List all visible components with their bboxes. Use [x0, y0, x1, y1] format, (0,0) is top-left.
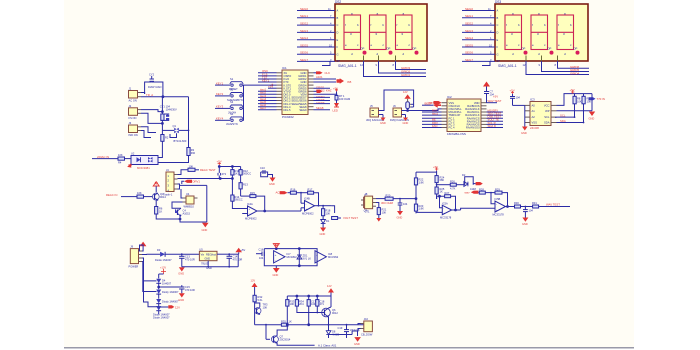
- svg-text:DS3: DS3: [495, 0, 501, 4]
- diode D1 (clamp): [321, 216, 330, 224]
- svg-text:SEG6: SEG6: [465, 51, 473, 55]
- IC1 left pin stubs: [277, 73, 283, 110]
- svg-text:SEG3: SEG3: [465, 29, 473, 33]
- svg-text:1.8K: 1.8K: [419, 181, 425, 185]
- svg-text:24C08: 24C08: [530, 126, 539, 130]
- digit 5 outline: [531, 15, 548, 50]
- IC3 pin names: [532, 103, 538, 124]
- resistor R10 REAC TEST: [188, 164, 216, 172]
- svg-text:R31: R31: [532, 201, 537, 205]
- WAV net arrow into IC2 pin1: [429, 101, 442, 105]
- decimal point DP4: [522, 47, 528, 55]
- svg-text:KEY1: KEY1: [262, 78, 270, 82]
- svg-text:WAV TEST: WAV TEST: [546, 203, 560, 207]
- svg-text:104: 104: [529, 209, 534, 213]
- svg-text:J1: J1: [129, 87, 132, 91]
- svg-text:1K: 1K: [440, 190, 443, 194]
- svg-text:R26: R26: [450, 179, 455, 183]
- svg-text:GRID1: GRID1: [401, 73, 411, 77]
- +5V at Q3: [153, 182, 159, 193]
- VCC arrow above IC2: [483, 82, 490, 92]
- snubber labels: [160, 104, 177, 111]
- svg-text:R4: R4: [118, 161, 122, 165]
- wire J4 pin1 to REAC TEST resistor: [178, 170, 189, 175]
- svg-text:S2: S2: [230, 88, 234, 92]
- pullup resistor R9: [582, 94, 591, 123]
- resistor R22 (1.8K top): [414, 178, 424, 185]
- svg-text:5.6L: 5.6L: [258, 298, 264, 302]
- svg-text:SDA R: SDA R: [488, 124, 496, 128]
- push button S4: [215, 112, 243, 126]
- resistor R19 out: [322, 205, 337, 220]
- svg-text:104: 104: [403, 202, 408, 206]
- resistor R32 (5.6K): [253, 295, 263, 308]
- svg-text:DP: DP: [387, 47, 391, 51]
- svg-text:A2: A2: [532, 115, 536, 119]
- snubber resistor R2: [161, 114, 169, 120]
- svg-text:R30: R30: [514, 201, 519, 205]
- sheet bottom border: [64, 347, 634, 349]
- svg-text:12: 12: [523, 63, 526, 67]
- svg-text:SEG3: SEG3: [300, 29, 308, 33]
- resistor R3 (vertical right): [187, 148, 196, 156]
- wire loop J5 to buzzer rail: [379, 90, 414, 111]
- LED D (red diode down): [333, 100, 340, 113]
- +5V rail top: [416, 165, 438, 176]
- svg-text:+5V: +5V: [241, 248, 246, 252]
- digit 1 outline: [344, 15, 361, 50]
- svg-text:DP: DP: [413, 47, 417, 51]
- opto output wires: [158, 147, 189, 163]
- DS3 spare pin stub: [482, 61, 490, 65]
- svg-text:IC4B: IC4B: [304, 197, 310, 201]
- svg-text:GND: GND: [521, 131, 527, 135]
- svg-text:D: D: [337, 31, 339, 35]
- svg-text:DP: DP: [548, 47, 552, 51]
- resistor R6 below Q3: [155, 200, 163, 217]
- ground (C11): [397, 211, 404, 220]
- grid net labels: [570, 65, 580, 76]
- svg-text:+: +: [275, 253, 277, 257]
- svg-text:10K: 10K: [137, 191, 142, 195]
- svg-text:SEG8: SEG8: [316, 106, 324, 110]
- push button S3: [215, 100, 243, 114]
- svg-text:D2: D2: [462, 173, 466, 177]
- snubber capacitor CY1: [166, 114, 169, 120]
- svg-text:SEG1: SEG1: [465, 14, 473, 18]
- svg-text:E: E: [497, 38, 499, 42]
- svg-text:12V: 12V: [327, 284, 332, 288]
- VCC rail right of IC3: [557, 94, 593, 106]
- svg-text:SEG5: SEG5: [300, 43, 308, 47]
- svg-text:IN5: IN5: [347, 80, 352, 84]
- svg-text:12: 12: [360, 63, 363, 67]
- digit2 segment letters: [371, 11, 385, 56]
- svg-text:CY2: CY2: [149, 73, 155, 77]
- DS2 grid pin stubs below: [360, 61, 426, 77]
- divider node vertical: [415, 172, 417, 213]
- svg-text:ACF: ACF: [276, 191, 282, 195]
- connector J7 (2-pin right): [361, 193, 370, 212]
- svg-text:AC ON: AC ON: [129, 99, 137, 103]
- ground (buffer): [273, 266, 280, 277]
- button common bus wire: [242, 85, 243, 120]
- svg-text:E: E: [337, 38, 339, 42]
- IC2 left wires with tiao labels: [422, 108, 442, 128]
- resistor R13: [239, 183, 248, 197]
- resistor R24 (680): [435, 175, 445, 187]
- VOLT TEST net label: [338, 216, 359, 220]
- connector J10 output: [352, 317, 373, 337]
- svg-text:Diode 1N4007: Diode 1N4007: [153, 315, 170, 319]
- regulator U5 78L05: [182, 247, 238, 270]
- connector J8 (3-pin CT): [365, 192, 376, 213]
- svg-text:1K: 1K: [235, 172, 238, 176]
- wires J2 to snubber rail: [141, 110, 162, 124]
- svg-text:1N4007: 1N4007: [162, 281, 172, 285]
- svg-text:KHZ: KHZ: [326, 89, 332, 93]
- svg-text:Diody 1N4007: Diody 1N4007: [162, 300, 179, 304]
- svg-text:+5V: +5V: [510, 89, 515, 93]
- long bottom wire: [255, 324, 364, 326]
- svg-text:FAN: FAN: [432, 124, 437, 128]
- capacitor C9 (473): [218, 172, 226, 179]
- digit 6 outline: [557, 15, 574, 50]
- resistor R28: [478, 187, 491, 194]
- svg-text:MC33178: MC33178: [493, 213, 505, 217]
- svg-text:C19: C19: [338, 326, 343, 330]
- connector J1 AC ON: [129, 87, 142, 103]
- svg-text:1.8K: 1.8K: [419, 207, 425, 211]
- ground (WP): [557, 94, 596, 121]
- IC3 right pin stubs: [551, 105, 557, 122]
- svg-text:104: 104: [259, 256, 264, 260]
- svg-text:Tiaoln-1: Tiaoln-1: [163, 192, 173, 196]
- svg-text:MCP6002: MCP6002: [302, 212, 314, 216]
- IC5B wires: [461, 193, 515, 210]
- svg-text:B: B: [337, 16, 339, 20]
- svg-text:GND: GND: [522, 222, 528, 226]
- resistor R21 (10K to gnd): [376, 203, 387, 222]
- svg-text:104: 104: [516, 96, 521, 100]
- svg-text:DP: DP: [337, 59, 341, 63]
- svg-text:104: 104: [311, 302, 316, 306]
- svg-text:4148: 4148: [470, 187, 476, 191]
- svg-text:473: 473: [222, 172, 227, 176]
- svg-text:R20: R20: [386, 193, 391, 197]
- svg-text:Q1: Q1: [173, 124, 177, 128]
- decimal point DP5: [548, 47, 554, 55]
- svg-text:VOLT TEST: VOLT TEST: [343, 216, 358, 220]
- wire J1 pin1 to loop: [141, 93, 145, 95]
- op-amp IC5B MC33178: [493, 197, 506, 216]
- IC1 right: CLK net arrow: [314, 71, 331, 93]
- svg-text:GND: GND: [589, 117, 595, 121]
- IC IC3 (24C08): [530, 98, 551, 131]
- svg-text:KEY4: KEY4: [216, 117, 224, 121]
- IC1 right wires to IN5 arrow: [314, 78, 352, 84]
- resistor R15 (to op-amp): [241, 191, 256, 198]
- resistor R17 (10K feedback): [300, 187, 318, 205]
- svg-text:470 10R: 470 10R: [233, 257, 243, 261]
- svg-text:JIAN/SYN: JIAN/SYN: [226, 122, 238, 126]
- IC1 right label A101: [316, 75, 323, 79]
- svg-text:MC33N2: MC33N2: [287, 255, 298, 259]
- svg-text:S1: S1: [230, 77, 234, 81]
- VCC arrow above buzzer: [403, 90, 411, 99]
- svg-text:2SC9014: 2SC9014: [280, 337, 291, 341]
- digit6 segment letters: [558, 11, 572, 56]
- svg-text:MOC3081: MOC3081: [137, 166, 150, 170]
- PNP power transistor Q6: [297, 307, 338, 329]
- svg-text:9012: 9012: [332, 311, 338, 315]
- svg-text:PIC9462: PIC9462: [282, 115, 294, 119]
- capacitor C16 input: [256, 248, 264, 260]
- sheet footnote text: [318, 344, 337, 348]
- svg-text:GND: GND: [397, 216, 403, 220]
- IC1 right short wires: [314, 88, 331, 103]
- svg-text:SEG0: SEG0: [465, 7, 473, 11]
- svg-text:S3: S3: [230, 100, 234, 104]
- svg-text:12V: 12V: [251, 279, 256, 283]
- 220AC IN input wire: [92, 155, 118, 159]
- feedback resistor R27: [440, 191, 456, 210]
- svg-text:MC33178: MC33178: [440, 216, 452, 220]
- svg-text:RA/AN/OSI: RA/AN/OSI: [466, 126, 480, 130]
- resistor R31: [532, 201, 570, 208]
- svg-text:+5V: +5V: [433, 165, 438, 169]
- base resistor R35: [281, 319, 292, 326]
- svg-text:KEY1: KEY1: [216, 81, 224, 85]
- svg-text:DS2: DS2: [335, 0, 341, 4]
- svg-text:360: 360: [191, 151, 196, 155]
- wire button bus to IC1: [244, 84, 277, 86]
- op-amp IC4B MCP6002: [262, 193, 323, 216]
- MOSFET Q4: [175, 208, 191, 216]
- svg-text:POWER: POWER: [129, 265, 139, 269]
- ground (C15): [178, 293, 185, 302]
- svg-text:680: 680: [440, 178, 445, 182]
- svg-text:KEY3: KEY3: [216, 105, 224, 109]
- svg-text:SMG_A01-1: SMG_A01-1: [498, 64, 517, 68]
- resistor R16 (1K): [290, 187, 301, 194]
- svg-text:SEG5: SEG5: [465, 43, 473, 47]
- decimal point DP6: [574, 47, 580, 55]
- SEG8 wire bottom right of IC1: [314, 106, 331, 110]
- svg-text:WP: WP: [545, 109, 550, 113]
- svg-text:DRV1: DRV1: [193, 179, 201, 183]
- resistor R23 (1.8K bottom): [414, 204, 424, 211]
- svg-text:A.1 Class: A01: A.1 Class: A01: [318, 344, 337, 348]
- svg-text:-: -: [249, 212, 250, 216]
- IC IC2 (PIC16F628A): [447, 95, 481, 136]
- svg-text:GND: GND: [178, 272, 184, 276]
- base resistor pairs rail: [287, 295, 330, 300]
- jumper J6 (2-pin): [390, 104, 409, 122]
- jumper J5 (2-pin): [366, 104, 384, 122]
- svg-text:IC1: IC1: [282, 66, 287, 70]
- svg-text:SEG4: SEG4: [465, 36, 473, 40]
- ground (J5): [379, 115, 386, 126]
- svg-text:GND: GND: [380, 121, 386, 125]
- zener ZD1: [297, 254, 311, 261]
- svg-text:GND: GND: [354, 342, 360, 346]
- display DS2 body: [335, 0, 427, 68]
- svg-text:GRID2: GRID2: [316, 89, 325, 93]
- svg-text:A: A: [337, 9, 339, 13]
- svg-text:tiao7: tiao7: [260, 106, 267, 110]
- DS2 left pin wires with SEG net labels: [297, 7, 340, 63]
- svg-text:220AC IN: 220AC IN: [97, 155, 109, 159]
- svg-text:A101: A101: [316, 75, 323, 79]
- SCL wire: [555, 113, 575, 118]
- svg-text:R15: R15: [250, 191, 255, 195]
- header J9 POWER (4-pin): [129, 245, 143, 269]
- svg-text:BT131-600: BT131-600: [174, 139, 187, 143]
- svg-text:WAV TEST: WAV TEST: [488, 99, 502, 103]
- svg-text:-: -: [316, 259, 317, 263]
- wire J6 to buzzer bottom to IC2: [402, 109, 442, 112]
- svg-text:A1015: A1015: [183, 211, 191, 215]
- svg-text:J2: J2: [129, 104, 132, 108]
- decimal point DP2: [387, 47, 393, 55]
- svg-text:+5V: +5V: [570, 88, 575, 92]
- resistor R25 (1K): [435, 184, 445, 199]
- svg-text:SMG_A01-1: SMG_A01-1: [338, 64, 357, 68]
- svg-text:S4: S4: [230, 112, 234, 116]
- svg-text:Diody 1N4007: Diody 1N4007: [162, 290, 179, 294]
- svg-text:+: +: [496, 208, 498, 212]
- IC1 left lower stub wires with tiao labels: [258, 88, 277, 110]
- svg-text:R27: R27: [445, 191, 450, 195]
- svg-text:Vin: Vin: [201, 254, 205, 257]
- svg-text:IC5B: IC5B: [495, 197, 501, 201]
- svg-text:IND ON: IND ON: [129, 133, 138, 137]
- svg-text:Diode 1N4007: Diode 1N4007: [155, 258, 172, 262]
- svg-text:DIG.5: DIG.5: [284, 108, 292, 112]
- svg-text:R29: R29: [495, 187, 500, 191]
- svg-text:560CC: 560CC: [235, 198, 243, 202]
- svg-text:B: B: [497, 16, 499, 20]
- svg-text:U4: U4: [186, 192, 190, 196]
- svg-text:tiao1: tiao1: [432, 112, 439, 116]
- IC2 left pin stubs: [442, 103, 448, 128]
- svg-text:-: -: [306, 202, 307, 206]
- svg-text:SDA: SDA: [544, 121, 550, 125]
- DS2 bottom pin stubs inside package: [364, 56, 396, 62]
- svg-text:470 10R: 470 10R: [185, 257, 195, 261]
- ACF net arrow: [276, 191, 291, 195]
- svg-text:16F628A-I/SS: 16F628A-I/SS: [447, 132, 466, 136]
- svg-text:GND: GND: [178, 298, 184, 302]
- svg-text:J6: J6: [393, 104, 396, 108]
- svg-text:SDA: SDA: [560, 119, 566, 123]
- triac gate wire: [170, 133, 177, 137]
- ground (J10): [354, 331, 361, 346]
- PNP transistor Q5: [255, 303, 268, 325]
- IC5A input wires: [416, 195, 461, 213]
- svg-text:78L05: 78L05: [201, 262, 209, 266]
- svg-text:+: +: [316, 253, 318, 257]
- IC3 left common bus to ground: [513, 105, 525, 126]
- WAV TEST label on IC2 pin top right: [487, 99, 502, 103]
- capacitor C7 on VDD: [484, 90, 498, 103]
- svg-text:4.7K: 4.7K: [450, 187, 456, 191]
- top loop wire: [145, 82, 163, 97]
- DS3 grid pin stubs below: [523, 61, 590, 75]
- svg-text:SEG1: SEG1: [300, 14, 308, 18]
- svg-text:IC3: IC3: [530, 98, 535, 102]
- svg-text:GRID4: GRID4: [570, 71, 580, 75]
- svg-text:GND: GND: [320, 232, 326, 236]
- T70 IN blue arrow: [589, 97, 605, 101]
- svg-text:MCP6002: MCP6002: [245, 217, 257, 221]
- svg-text:DP: DP: [522, 47, 526, 51]
- svg-text:100 OHM: 100 OHM: [339, 97, 350, 101]
- svg-text:J5: J5: [370, 104, 373, 108]
- WAV TEST output label: [546, 203, 560, 207]
- svg-text:J10: J10: [364, 317, 369, 321]
- input resistor R4: [118, 153, 131, 164]
- svg-text:10K: 10K: [326, 211, 331, 215]
- electrolytic cap C19: [338, 324, 361, 338]
- resistor R29 (feedback): [490, 187, 507, 206]
- svg-text:10K: 10K: [263, 305, 268, 309]
- svg-text:SCL: SCL: [544, 115, 550, 119]
- WAV net arrow (to IC2): [465, 190, 479, 194]
- svg-text:WM8510: WM8510: [184, 205, 195, 209]
- NPN transistor Q7 bottom: [265, 324, 315, 345]
- svg-text:IC5A: IC5A: [442, 201, 448, 205]
- big blue off-page arrow IN5: [337, 78, 345, 83]
- svg-text:GND: GND: [202, 228, 208, 232]
- svg-text:A1: A1: [532, 109, 536, 113]
- svg-text:T70 IN: T70 IN: [597, 97, 605, 101]
- DS3 bottom pin stubs inside package: [526, 56, 558, 62]
- push button S1 RESET: [215, 77, 243, 91]
- svg-text:SEG7: SEG7: [300, 58, 308, 62]
- svg-text:J8: J8: [365, 192, 368, 196]
- vertical component rail: [162, 97, 164, 131]
- +5V tap on IC1 pin 6: [268, 84, 277, 89]
- svg-text:10K: 10K: [290, 302, 295, 306]
- svg-text:+5V: +5V: [493, 95, 498, 99]
- resistor R26 (4.7K branch): [437, 179, 465, 190]
- svg-text:DP: DP: [497, 59, 501, 63]
- REAC IN input wire: [106, 193, 137, 197]
- IC1 pin name text columns: [284, 71, 292, 112]
- svg-text:IC4A: IC4A: [247, 202, 253, 206]
- diode D4: [156, 279, 171, 290]
- svg-text:471: 471: [320, 302, 325, 306]
- svg-text:C10: C10: [260, 166, 265, 170]
- svg-text:R35: R35: [281, 319, 286, 323]
- VCC out arrow: [229, 248, 245, 255]
- svg-text:8: 8: [555, 63, 557, 67]
- svg-text:300 OHM: 300 OHM: [381, 201, 394, 205]
- J9 lower pins down wires: [139, 245, 157, 292]
- svg-text:10K: 10K: [382, 210, 387, 214]
- diode D6: [156, 299, 179, 307]
- svg-text:10K: 10K: [577, 99, 582, 103]
- svg-text:C16: C16: [259, 248, 264, 252]
- VCC cross symbol: [570, 88, 575, 94]
- svg-text:SEG2: SEG2: [300, 22, 308, 26]
- svg-text:A0: A0: [532, 103, 536, 107]
- svg-text:GND: GND: [273, 273, 279, 277]
- svg-text:G: G: [337, 52, 339, 56]
- burden resistor R20: [376, 193, 416, 205]
